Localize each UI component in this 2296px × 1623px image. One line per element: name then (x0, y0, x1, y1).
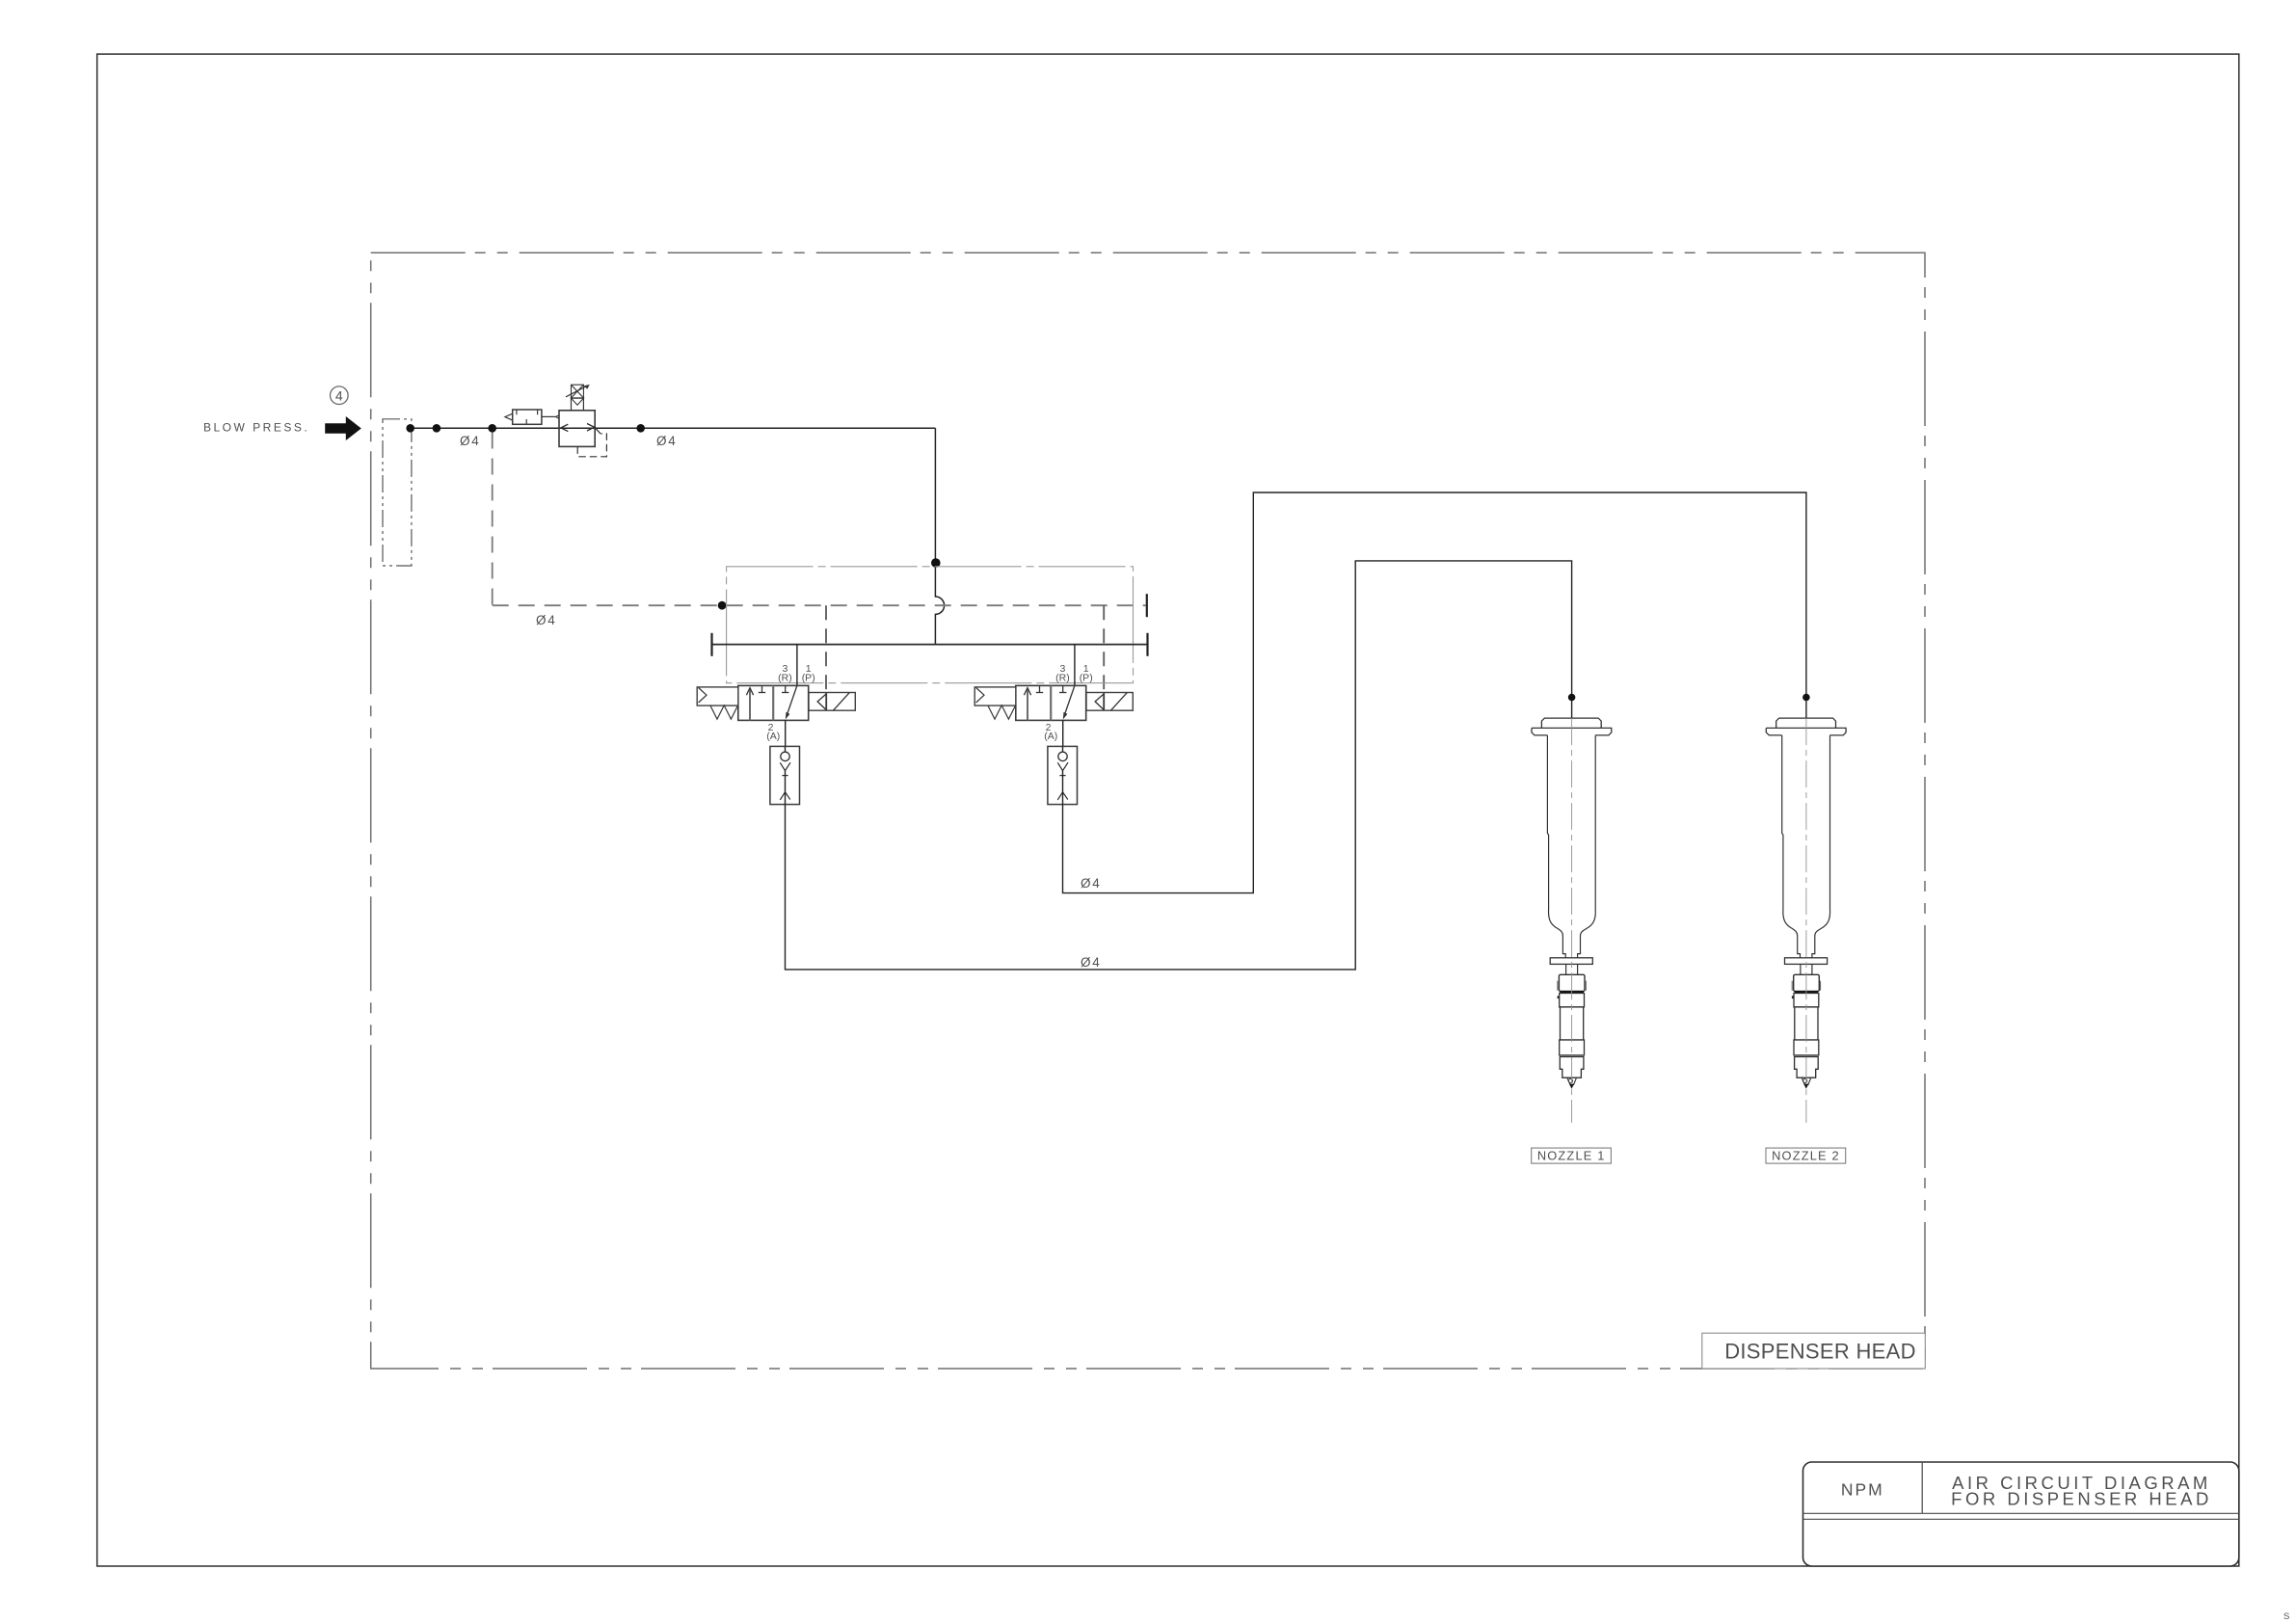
valve SV1 solenoid (809, 693, 855, 711)
node: inlet junction (406, 424, 414, 433)
title block (1803, 1462, 2239, 1566)
wire: supply drop to manifold (935, 428, 944, 644)
terminator: manifold left plug (710, 633, 712, 656)
node: branch to blow dashed line (488, 424, 496, 433)
svg-text:4: 4 (335, 387, 343, 403)
valve SV1 pilot/manual actuator (697, 687, 738, 705)
svg-text:NOZZLE 1: NOZZLE 1 (1537, 1149, 1606, 1163)
DISPENSER HEAD label box (1702, 1333, 1926, 1369)
svg-text:NOZZLE 2: NOZZLE 2 (1772, 1149, 1840, 1163)
svg-text:BLOW PRESS.: BLOW PRESS. (203, 421, 309, 435)
solenoid valve SV1 (738, 645, 809, 721)
check valve CV1 (770, 746, 800, 804)
nozzle 2 label (1766, 1148, 1846, 1163)
note circled 4 (331, 386, 349, 405)
syringe 2 (nozzle 2 dispenser) (1766, 718, 1846, 1123)
filter / silencer (505, 410, 559, 424)
svg-text:(R): (R) (1055, 673, 1070, 684)
check valve CV2 (1048, 746, 1078, 804)
syringe 1 (nozzle 1 dispenser) (1532, 718, 1612, 1123)
valve SV2 pilot/manual actuator (974, 687, 1016, 705)
wire: dashed pilot branch to valve 1 (825, 605, 827, 710)
valve SV2 port labels (1044, 663, 1092, 742)
svg-text:(R): (R) (778, 673, 792, 684)
wire: CV1 to nozzle 1 line (786, 561, 1572, 970)
svg-text:(A): (A) (1044, 731, 1057, 742)
wire: blow pressure dashed line (drop) (492, 433, 494, 606)
wire: main supply line (412, 427, 936, 429)
svg-text:NPM: NPM (1841, 1479, 1884, 1499)
valve SV2 return spring (988, 705, 1016, 719)
node: syringe 2 feed junction (1802, 694, 1810, 702)
inlet stub phantom box (383, 419, 412, 566)
solenoid valve SV2 (1016, 645, 1086, 721)
svg-text:(P): (P) (1080, 673, 1093, 684)
node: junction 2 (433, 424, 441, 433)
wire: blow pressure dashed line (run) (493, 604, 1146, 606)
svg-text:FOR DISPENSER HEAD: FOR DISPENSER HEAD (1951, 1489, 2212, 1509)
wire: SV1 port A to check valve (785, 720, 787, 746)
svg-text:(A): (A) (766, 731, 780, 742)
svg-text:Ø4: Ø4 (656, 434, 678, 448)
svg-text:DISPENSER HEAD: DISPENSER HEAD (1724, 1340, 1916, 1364)
regulator (559, 385, 606, 457)
wire: CV2 to nozzle 2 line (1063, 492, 1806, 893)
valve unit boundary (thin phantom box) (727, 567, 1134, 683)
manifold line (712, 644, 1148, 646)
svg-text:S: S (2283, 1611, 2289, 1622)
valve SV1 return spring (710, 705, 738, 719)
svg-text:Ø4: Ø4 (1081, 955, 1102, 970)
svg-text:(P): (P) (802, 673, 815, 684)
wire: SV2 port A to check valve (1062, 720, 1064, 746)
node: dashed line junction (718, 601, 727, 610)
svg-text:Ø4: Ø4 (460, 434, 481, 448)
node: junction after regulator (636, 424, 645, 433)
nozzle 1 label (1532, 1148, 1612, 1163)
node: junction on valve-unit boundary (931, 558, 941, 568)
terminator: manifold right plug (1146, 633, 1148, 656)
node: syringe 1 feed junction (1568, 694, 1576, 702)
dispenser head boundary (phantom box) (371, 253, 1925, 1369)
terminator: dashed line plug (1146, 594, 1148, 617)
wire: dashed pilot branch to valve 2 (1103, 605, 1105, 710)
svg-text:Ø4: Ø4 (536, 613, 557, 627)
valve SV1 port labels (766, 663, 814, 742)
svg-text:Ø4: Ø4 (1081, 876, 1102, 891)
blow pressure inlet arrow (325, 416, 361, 440)
valve SV2 solenoid (1086, 693, 1133, 711)
